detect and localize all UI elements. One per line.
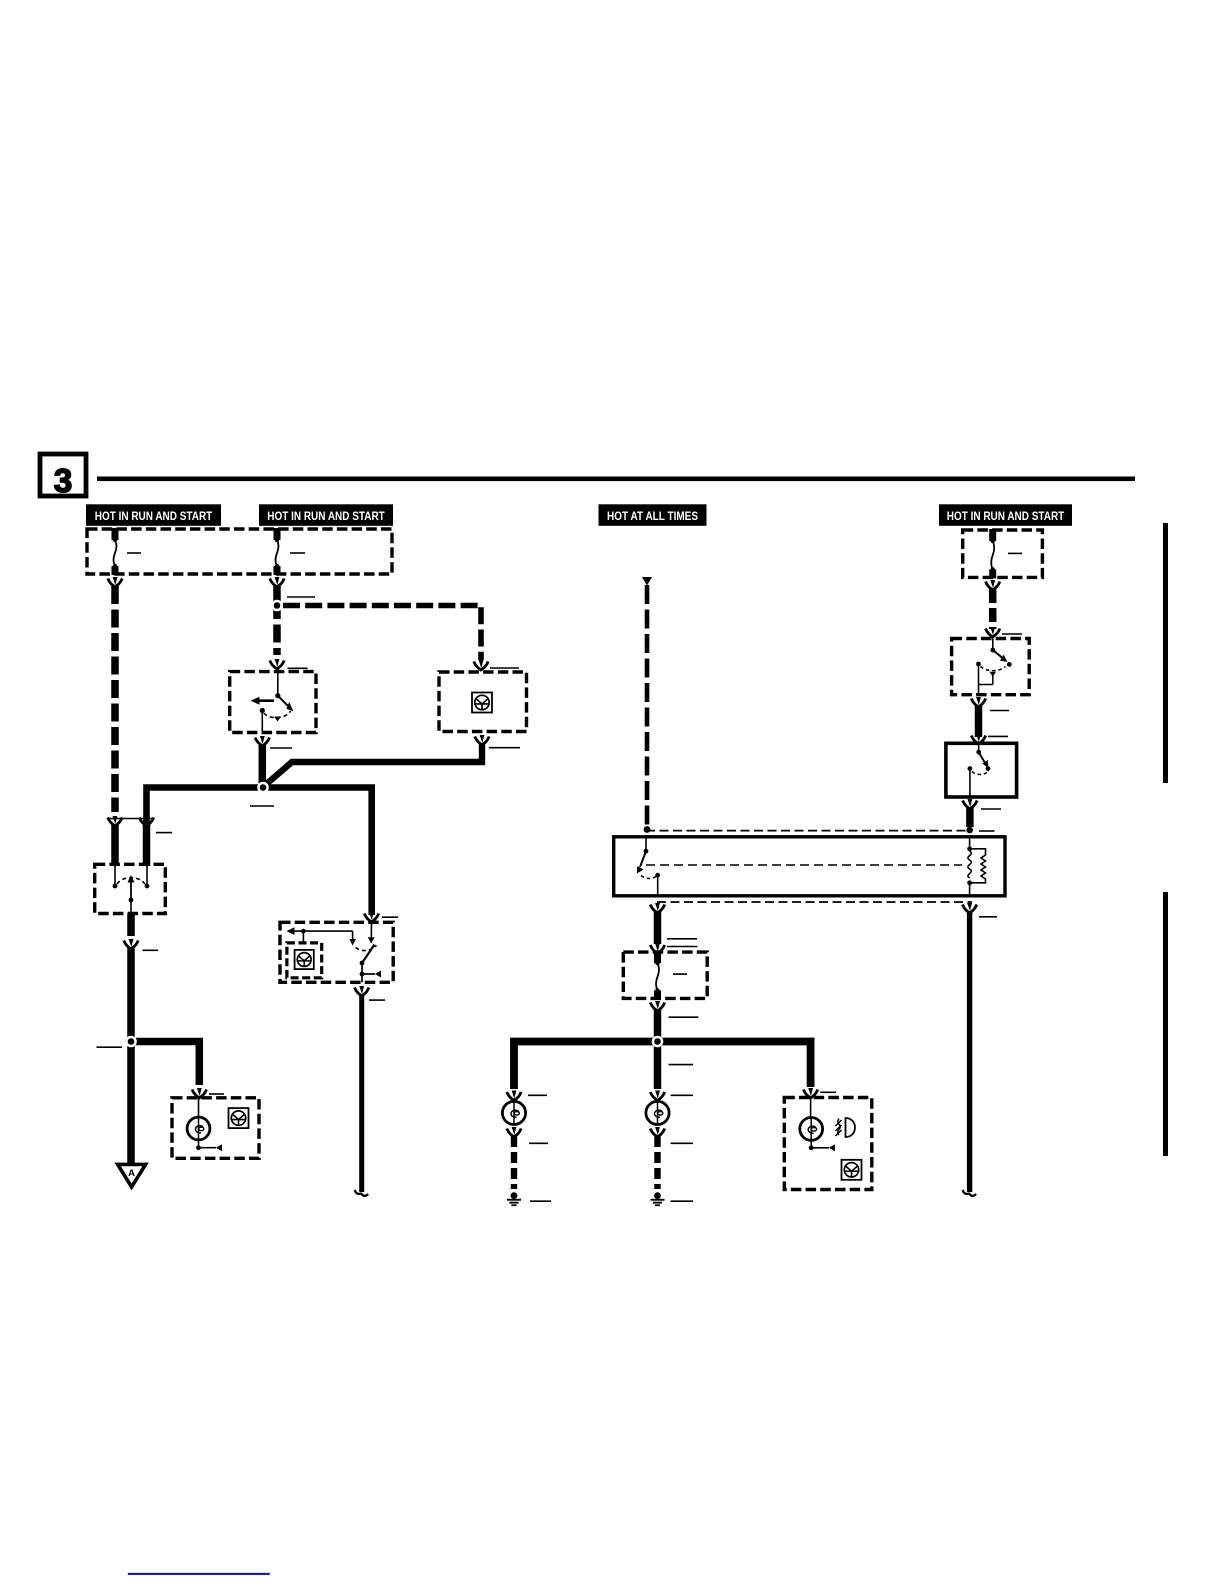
wire E down to relay coil: [966, 808, 974, 827]
connector below C: [355, 986, 369, 996]
wire down to junction J3: [127, 948, 135, 1165]
gauge G (instrument cluster): [95, 864, 166, 913]
S1 out pin label: [270, 747, 292, 749]
J2 wire label: [250, 805, 274, 807]
wire: below C1 left: [111, 825, 119, 866]
fuse box F4: [963, 530, 1043, 577]
junction J2: [257, 782, 269, 794]
wire break curl: [355, 1190, 369, 1196]
battery feed arrow: [642, 577, 652, 586]
wire: hot at all times down to relay (dashed): [645, 585, 650, 826]
C pin label: [382, 916, 398, 918]
connector below fuse F2: [270, 577, 284, 587]
lamp E2: [646, 1101, 669, 1124]
E1 ground label: [530, 1200, 551, 1202]
E1 out label: [529, 1142, 548, 1144]
connector above horn switch C: [364, 912, 378, 922]
page number box 3: [40, 454, 86, 496]
svg-text:3: 3: [54, 462, 72, 499]
C out label: [369, 999, 385, 1001]
switch box E (solid): [946, 743, 1017, 797]
connector C1 line: [109, 818, 152, 820]
steering wheel icon in B: [472, 693, 492, 713]
wire: J1 to right then down to horn contact (dashed): [283, 606, 481, 661]
fog pin label: [820, 1091, 836, 1093]
footer blue line: [128, 1573, 270, 1575]
fuse box (left pair): [87, 529, 392, 574]
F3 value label: [673, 973, 687, 975]
label HOT IN RUN AND START (left): [86, 504, 221, 526]
connector below lamp E2: [650, 1127, 664, 1137]
E pin label: [988, 735, 1008, 737]
D pin label: [1002, 633, 1022, 635]
ground triangle A: [118, 1164, 146, 1187]
connector below lamp E1: [507, 1127, 521, 1137]
relay coil: [967, 837, 985, 896]
connector below relay right: [962, 903, 976, 913]
connector below fuse F1: [108, 577, 122, 587]
wire label at junction J1: [287, 596, 315, 598]
G out label: [143, 949, 159, 951]
connector below F3: [650, 1001, 664, 1011]
ground at E2: [651, 1192, 665, 1206]
svg-text:HOT IN RUN AND START: HOT IN RUN AND START: [267, 511, 385, 523]
B pin label: [490, 667, 519, 669]
junction J3: [125, 1036, 137, 1048]
S1 internals: [251, 672, 294, 733]
relay dashed bus bottom: [657, 901, 972, 903]
connector above lamp E2: [650, 1091, 664, 1101]
J4 down label: [669, 1064, 694, 1066]
relay K internals: [637, 837, 962, 896]
svg-text:HOT IN RUN AND START: HOT IN RUN AND START: [95, 511, 213, 523]
E out label a: [981, 808, 1001, 810]
label HOT IN RUN AND START (right): [939, 504, 1072, 526]
connector below E: [963, 799, 977, 809]
fuse F3: [655, 951, 659, 999]
wire relay right down long: [967, 912, 972, 1192]
fuse F2: [275, 528, 279, 575]
wire E2 to ground (dashed): [654, 1136, 660, 1189]
wire: below B down, left and diagonal to junction J2: [264, 744, 483, 787]
E1 pin label: [528, 1094, 547, 1096]
F4 value label: [1008, 552, 1022, 554]
fuse F4: [991, 529, 995, 578]
B out pin label: [489, 747, 520, 749]
wire below G: [127, 914, 135, 937]
fuse F2 value label: [290, 552, 305, 554]
svg-text:HOT AT ALL TIMES: HOT AT ALL TIMES: [607, 511, 698, 523]
wire: J2 horizontal distribution: [147, 788, 372, 916]
F3 upper label b: [667, 946, 698, 948]
C internals: [287, 922, 382, 982]
junction J1: [271, 600, 283, 612]
fuse F1 value label: [127, 552, 141, 554]
indicator pin label: [209, 1093, 224, 1095]
wire: J1 down to switch A (dashed): [273, 601, 281, 655]
connector pair C1 left: [108, 816, 122, 826]
svg-text:HOT IN RUN AND START: HOT IN RUN AND START: [947, 511, 1065, 523]
relay right out label: [979, 916, 997, 918]
C1 right label: [156, 832, 172, 834]
fog lamp indicator box F: [784, 1098, 872, 1190]
wire: J3 right branch to indicator: [131, 1042, 199, 1086]
F3 out label: [669, 1016, 699, 1018]
indicator lamp box I: [172, 1098, 259, 1159]
connector below B: [475, 735, 489, 745]
connector above switch D: [986, 627, 1000, 637]
I internals: bulb + connector arrow + steering icon: [198, 1098, 200, 1118]
wire E1 to ground (dashed): [511, 1136, 517, 1189]
relay K box: [614, 837, 1005, 896]
ignition switch D: [952, 639, 1030, 695]
wire: fuse F1 down (dashed): [111, 586, 119, 812]
connector below D: [971, 697, 985, 707]
F3 upper label a: [667, 938, 697, 940]
lamp distribution bus: [514, 1042, 811, 1090]
connector below G: [124, 939, 138, 949]
header rule: [97, 477, 1135, 482]
connector above switch E: [971, 734, 985, 744]
connector below switch A: [255, 736, 269, 746]
J3 left label: [97, 1046, 123, 1048]
connector above fog box: [803, 1088, 817, 1098]
D out label: [990, 710, 1009, 712]
D internals: [976, 639, 1012, 695]
S1 pin label: [288, 667, 308, 669]
wire relay left down: [654, 912, 662, 944]
junction J4: [652, 1036, 664, 1048]
wire: fuse F2 down to junction (dashed): [273, 586, 281, 601]
E out label b: [979, 830, 995, 832]
switch S1 (column switch): [230, 672, 316, 733]
page edge bar lower: [1163, 892, 1168, 1156]
relay dashed bus top: [646, 830, 970, 832]
connector below F4: [986, 580, 1000, 590]
G internals: [113, 864, 150, 913]
page edge bar upper: [1163, 523, 1168, 783]
wire: C down to break: [359, 995, 364, 1192]
horn switch C: [280, 922, 393, 982]
connector pair C1 right: [139, 816, 153, 826]
fog lamp icon: [836, 1118, 856, 1137]
F internals: [810, 1098, 812, 1119]
connector above indicator box: [192, 1088, 206, 1098]
wire D to E: [975, 706, 983, 737]
lamp E1: [502, 1101, 525, 1124]
connector above contact ring B: [474, 660, 488, 670]
steering wheel inner box: [287, 943, 322, 978]
wire below C1 right: [143, 825, 151, 866]
E2 pin label: [671, 1094, 693, 1096]
ground at E1: [507, 1192, 521, 1206]
connector above fuse box F3: [650, 944, 664, 954]
fuse F1: [113, 528, 117, 575]
connector above switch A: [270, 659, 284, 669]
E2 ground label: [671, 1200, 693, 1202]
wire F3 down to junction J4: [654, 1010, 662, 1041]
label HOT IN RUN AND START (second): [259, 504, 393, 526]
connector below relay left: [650, 903, 664, 913]
E2 out label: [671, 1142, 693, 1144]
horn contact ring B: [439, 672, 527, 732]
wire J4 down: [654, 1042, 662, 1090]
svg-text:A: A: [128, 1168, 135, 1179]
connector above lamp E1: [507, 1091, 521, 1101]
wire F4 down (dashed): [989, 589, 997, 629]
label HOT AT ALL TIMES: [599, 504, 707, 526]
E internals: [968, 743, 991, 797]
fuse box F3: [623, 952, 707, 998]
wire break curl right: [963, 1190, 977, 1196]
wire: below A down to J2: [259, 745, 267, 790]
